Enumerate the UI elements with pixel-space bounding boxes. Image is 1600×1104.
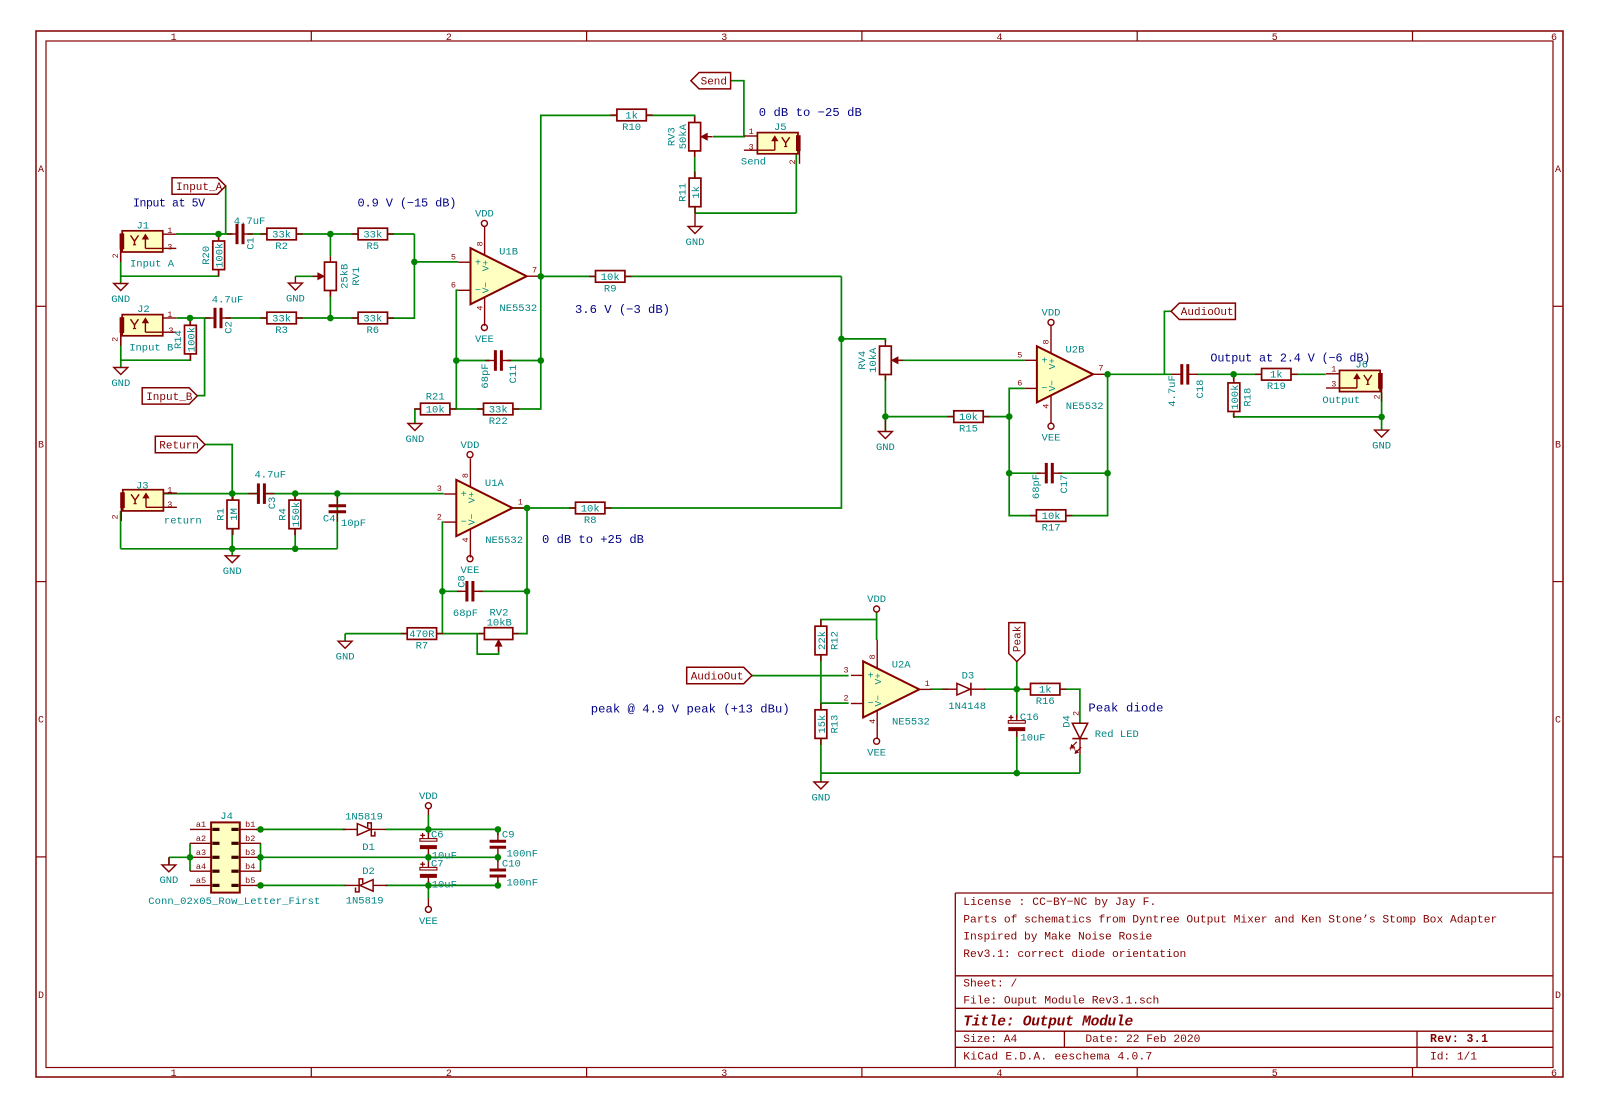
svg-text:Return: Return xyxy=(159,440,199,452)
svg-text:R13: R13 xyxy=(830,715,842,734)
svg-text:8: 8 xyxy=(868,654,878,659)
svg-text:GND: GND xyxy=(111,378,130,390)
svg-text:10k: 10k xyxy=(601,272,620,284)
svg-text:NE5532: NE5532 xyxy=(485,535,523,547)
svg-text:peak @ 4.9 V peak (+13 dBu): peak @ 4.9 V peak (+13 dBu) xyxy=(591,703,790,717)
svg-text:VEE: VEE xyxy=(461,565,480,577)
svg-text:150k: 150k xyxy=(291,502,303,527)
svg-text:GND: GND xyxy=(811,792,830,804)
svg-text:3: 3 xyxy=(721,1069,727,1080)
svg-text:5: 5 xyxy=(1017,351,1022,361)
svg-text:Rev: 3.1: Rev: 3.1 xyxy=(1430,1033,1488,1046)
svg-text:R3: R3 xyxy=(275,325,288,337)
svg-text:VDD: VDD xyxy=(475,209,494,221)
svg-text:1: 1 xyxy=(167,310,172,320)
svg-text:VDD: VDD xyxy=(1042,308,1061,320)
svg-text:5: 5 xyxy=(451,252,456,262)
svg-text:V+: V+ xyxy=(873,673,884,685)
svg-text:2: 2 xyxy=(843,694,848,704)
svg-text:3: 3 xyxy=(167,242,172,252)
svg-text:8: 8 xyxy=(475,241,485,246)
svg-text:Send: Send xyxy=(741,157,766,169)
svg-text:C16: C16 xyxy=(1020,712,1039,724)
svg-text:R2: R2 xyxy=(275,241,288,253)
svg-text:KiCad E.D.A. eeschema 4.0.7: KiCad E.D.A. eeschema 4.0.7 xyxy=(963,1052,1152,1064)
svg-text:VEE: VEE xyxy=(867,748,886,760)
svg-text:1: 1 xyxy=(518,497,523,507)
svg-text:U2B: U2B xyxy=(1066,344,1085,356)
svg-text:33k: 33k xyxy=(272,229,291,241)
svg-text:1k: 1k xyxy=(691,186,703,199)
svg-text:R5: R5 xyxy=(366,241,379,253)
svg-text:7: 7 xyxy=(1098,364,1103,374)
svg-text:Input_B: Input_B xyxy=(146,392,193,404)
svg-text:C: C xyxy=(1555,716,1561,727)
svg-text:2: 2 xyxy=(446,1069,452,1080)
svg-text:8: 8 xyxy=(461,473,471,478)
svg-text:1: 1 xyxy=(171,33,177,44)
svg-text:D1: D1 xyxy=(362,842,375,854)
svg-text:3.6 V (−3 dB): 3.6 V (−3 dB) xyxy=(575,303,670,317)
svg-text:0 dB to −25 dB: 0 dB to −25 dB xyxy=(759,106,862,120)
svg-text:0 dB to +25 dB: 0 dB to +25 dB xyxy=(542,533,644,547)
svg-text:1k: 1k xyxy=(1270,370,1283,382)
svg-text:1: 1 xyxy=(171,1069,177,1080)
svg-text:25kB: 25kB xyxy=(340,264,352,289)
svg-text:R22: R22 xyxy=(489,416,508,428)
svg-text:100k: 100k xyxy=(1230,385,1242,410)
svg-text:R9: R9 xyxy=(604,283,617,295)
svg-text:VDD: VDD xyxy=(461,440,480,452)
svg-text:10kA: 10kA xyxy=(868,347,880,373)
svg-text:Output: Output xyxy=(1322,395,1360,407)
svg-text:10k: 10k xyxy=(1042,511,1061,523)
svg-text:Parts of schematics from Dyntr: Parts of schematics from Dyntree Output … xyxy=(963,914,1497,926)
svg-text:10kB: 10kB xyxy=(487,617,512,629)
svg-text:a4: a4 xyxy=(196,862,206,872)
svg-text:GND: GND xyxy=(686,237,705,249)
svg-text:b5: b5 xyxy=(245,876,255,886)
svg-text:R1: R1 xyxy=(215,508,227,521)
svg-text:Sheet: /: Sheet: / xyxy=(963,979,1017,991)
svg-text:Input_A: Input_A xyxy=(176,182,223,194)
svg-text:2: 2 xyxy=(110,514,120,519)
svg-text:33k: 33k xyxy=(489,404,508,416)
svg-text:68pF: 68pF xyxy=(1031,474,1043,499)
svg-text:33k: 33k xyxy=(363,229,382,241)
svg-text:GND: GND xyxy=(111,294,130,306)
svg-text:8: 8 xyxy=(1042,339,1052,344)
svg-text:100k: 100k xyxy=(215,243,227,268)
svg-text:4: 4 xyxy=(475,306,485,311)
svg-text:R20: R20 xyxy=(201,246,213,265)
svg-text:4: 4 xyxy=(996,33,1002,44)
svg-text:U1A: U1A xyxy=(485,478,505,490)
svg-text:4: 4 xyxy=(868,719,878,724)
svg-text:1N5819: 1N5819 xyxy=(345,812,383,824)
svg-text:1: 1 xyxy=(167,485,172,495)
svg-text:C10: C10 xyxy=(502,858,521,870)
svg-text:J4: J4 xyxy=(220,811,233,823)
svg-text:GND: GND xyxy=(405,434,424,446)
svg-text:2: 2 xyxy=(1373,394,1383,399)
svg-text:68pF: 68pF xyxy=(453,608,478,620)
svg-text:4: 4 xyxy=(1042,404,1052,409)
svg-text:AudioOut: AudioOut xyxy=(691,671,744,683)
svg-text:Output at 2.4 V (−6 dB): Output at 2.4 V (−6 dB) xyxy=(1210,352,1370,366)
svg-text:GND: GND xyxy=(223,566,242,578)
svg-text:B: B xyxy=(38,440,44,451)
svg-text:R10: R10 xyxy=(622,122,641,134)
svg-text:C18: C18 xyxy=(1195,380,1207,399)
svg-text:R14: R14 xyxy=(173,330,185,349)
svg-text:2: 2 xyxy=(437,512,442,522)
svg-text:NE5532: NE5532 xyxy=(892,716,930,728)
svg-text:1k: 1k xyxy=(625,110,638,122)
svg-text:1: 1 xyxy=(749,127,754,137)
svg-text:3: 3 xyxy=(167,500,172,510)
svg-text:4.7uF: 4.7uF xyxy=(255,470,287,482)
svg-text:4.7uF: 4.7uF xyxy=(212,294,244,306)
svg-text:R18: R18 xyxy=(1243,388,1255,407)
svg-text:33k: 33k xyxy=(363,313,382,325)
svg-text:1: 1 xyxy=(167,226,172,236)
svg-text:R21: R21 xyxy=(426,392,445,404)
svg-text:100k: 100k xyxy=(186,327,198,352)
svg-text:C6: C6 xyxy=(431,829,444,841)
svg-text:U1B: U1B xyxy=(499,246,518,258)
svg-text:4.7uF: 4.7uF xyxy=(234,216,266,228)
svg-text:10uF: 10uF xyxy=(1020,733,1045,745)
svg-text:b3: b3 xyxy=(245,848,255,858)
svg-text:D2: D2 xyxy=(362,866,375,878)
svg-text:V+: V+ xyxy=(466,491,477,503)
svg-text:3: 3 xyxy=(721,33,727,44)
svg-text:b2: b2 xyxy=(245,834,255,844)
svg-text:NE5532: NE5532 xyxy=(1066,401,1104,413)
svg-text:RV3: RV3 xyxy=(667,127,679,146)
svg-text:J1: J1 xyxy=(137,220,150,232)
svg-text:VEE: VEE xyxy=(419,916,438,928)
svg-text:D: D xyxy=(1555,991,1561,1002)
svg-text:C4: C4 xyxy=(323,513,336,525)
svg-text:C11: C11 xyxy=(508,365,520,384)
svg-text:7: 7 xyxy=(532,266,537,276)
svg-text:V−: V− xyxy=(1047,380,1058,392)
svg-text:2: 2 xyxy=(111,253,121,258)
svg-text:3: 3 xyxy=(1331,379,1336,389)
svg-text:2: 2 xyxy=(1071,711,1081,716)
svg-text:J5: J5 xyxy=(774,122,787,134)
svg-text:a5: a5 xyxy=(196,876,206,886)
svg-text:Input at 5V: Input at 5V xyxy=(133,197,205,210)
svg-text:Date: 22 Feb 2020: Date: 22 Feb 2020 xyxy=(1085,1034,1200,1046)
svg-text:10uF: 10uF xyxy=(432,879,457,891)
svg-text:4.7uF: 4.7uF xyxy=(1167,375,1179,407)
svg-text:V−: V− xyxy=(481,282,492,294)
svg-text:1: 1 xyxy=(1331,365,1336,375)
svg-text:b4: b4 xyxy=(245,862,255,872)
svg-text:5: 5 xyxy=(1272,33,1278,44)
svg-text:0.9 V (−15 dB): 0.9 V (−15 dB) xyxy=(358,196,457,210)
svg-text:2: 2 xyxy=(788,159,798,164)
svg-text:1M: 1M xyxy=(229,508,241,521)
svg-text:V+: V+ xyxy=(481,260,492,272)
svg-text:10k: 10k xyxy=(959,412,978,424)
svg-text:1k: 1k xyxy=(1039,685,1052,697)
svg-text:RV1: RV1 xyxy=(351,267,363,286)
svg-text:RV4: RV4 xyxy=(857,351,869,370)
svg-text:3: 3 xyxy=(843,666,848,676)
svg-text:a2: a2 xyxy=(196,834,206,844)
svg-text:Peak diode: Peak diode xyxy=(1088,702,1163,716)
svg-text:C9: C9 xyxy=(502,829,515,841)
svg-text:GND: GND xyxy=(336,652,355,664)
svg-text:Id: 1/1: Id: 1/1 xyxy=(1430,1052,1477,1064)
svg-text:1N4148: 1N4148 xyxy=(948,701,986,713)
svg-text:License : CC−BY−NC by Jay F.: License : CC−BY−NC by Jay F. xyxy=(963,897,1156,909)
svg-text:3: 3 xyxy=(437,484,442,494)
svg-text:R17: R17 xyxy=(1042,523,1061,535)
svg-text:GND: GND xyxy=(876,442,895,454)
svg-text:3: 3 xyxy=(749,143,754,153)
svg-text:470R: 470R xyxy=(409,629,435,641)
svg-text:VDD: VDD xyxy=(867,594,886,606)
svg-text:D: D xyxy=(38,991,44,1002)
svg-text:V+: V+ xyxy=(1047,358,1058,370)
svg-text:6: 6 xyxy=(1551,33,1557,44)
svg-text:C17: C17 xyxy=(1059,475,1071,494)
svg-text:C: C xyxy=(38,716,44,727)
svg-text:10pF: 10pF xyxy=(341,518,366,530)
svg-text:2: 2 xyxy=(111,337,121,342)
svg-text:2: 2 xyxy=(446,33,452,44)
svg-text:GND: GND xyxy=(1372,440,1391,452)
svg-text:C1: C1 xyxy=(245,237,257,250)
svg-text:C2: C2 xyxy=(223,321,235,334)
svg-text:C3: C3 xyxy=(267,497,279,510)
svg-text:100nF: 100nF xyxy=(507,877,539,889)
svg-text:33k: 33k xyxy=(272,313,291,325)
svg-text:4: 4 xyxy=(996,1069,1002,1080)
svg-text:22k: 22k xyxy=(817,631,829,650)
svg-text:a3: a3 xyxy=(196,848,206,858)
svg-text:Input B: Input B xyxy=(129,343,173,355)
svg-text:Peak: Peak xyxy=(1013,625,1025,652)
svg-text:GND: GND xyxy=(159,875,178,887)
svg-text:U2A: U2A xyxy=(892,660,912,672)
svg-text:10k: 10k xyxy=(426,404,445,416)
svg-text:1: 1 xyxy=(1068,746,1078,751)
svg-text:6: 6 xyxy=(451,281,456,291)
svg-text:D4: D4 xyxy=(1061,715,1073,728)
svg-text:NE5532: NE5532 xyxy=(499,303,537,315)
svg-text:return: return xyxy=(164,516,202,528)
svg-text:R15: R15 xyxy=(959,424,978,436)
svg-text:R16: R16 xyxy=(1036,696,1055,708)
svg-text:R4: R4 xyxy=(277,508,289,521)
svg-text:J2: J2 xyxy=(137,304,150,316)
svg-text:Conn_02x05_Row_Letter_First: Conn_02x05_Row_Letter_First xyxy=(148,896,320,908)
svg-text:15k: 15k xyxy=(817,715,829,734)
svg-text:GND: GND xyxy=(286,293,305,305)
svg-text:File: Ouput Module Rev3.1.sch: File: Ouput Module Rev3.1.sch xyxy=(963,995,1159,1007)
svg-text:C7: C7 xyxy=(431,858,444,870)
svg-text:B: B xyxy=(1555,440,1561,451)
svg-text:Inspired by Make Noise Rosie: Inspired by Make Noise Rosie xyxy=(963,932,1152,944)
svg-text:R6: R6 xyxy=(366,325,379,337)
svg-text:4: 4 xyxy=(461,537,471,542)
svg-text:R7: R7 xyxy=(416,641,429,653)
svg-text:68pF: 68pF xyxy=(480,363,492,388)
svg-text:J3: J3 xyxy=(136,480,149,492)
svg-text:6: 6 xyxy=(1017,379,1022,389)
svg-text:Size: A4: Size: A4 xyxy=(963,1034,1017,1046)
svg-text:a1: a1 xyxy=(196,820,206,830)
svg-text:1N5819: 1N5819 xyxy=(346,896,384,908)
svg-text:V−: V− xyxy=(466,513,477,525)
svg-text:A: A xyxy=(1555,165,1561,176)
svg-text:V−: V− xyxy=(873,695,884,707)
svg-text:50kA: 50kA xyxy=(678,123,690,149)
svg-text:b1: b1 xyxy=(245,820,255,830)
svg-text:6: 6 xyxy=(1551,1069,1557,1080)
svg-text:VEE: VEE xyxy=(1042,433,1061,445)
svg-text:VEE: VEE xyxy=(475,334,494,346)
svg-text:Red LED: Red LED xyxy=(1095,729,1139,741)
svg-text:R12: R12 xyxy=(830,631,842,650)
svg-text:1: 1 xyxy=(925,679,930,689)
svg-text:Rev3.1: correct diode orientat: Rev3.1: correct diode orientation xyxy=(963,949,1186,961)
svg-text:5: 5 xyxy=(1272,1069,1278,1080)
svg-text:R8: R8 xyxy=(584,515,597,527)
svg-text:AudioOut: AudioOut xyxy=(1181,307,1234,319)
svg-text:D3: D3 xyxy=(962,671,975,683)
svg-text:Input A: Input A xyxy=(130,259,175,271)
svg-text:R11: R11 xyxy=(678,183,690,202)
svg-text:Title: Output Module: Title: Output Module xyxy=(963,1014,1133,1030)
svg-text:VDD: VDD xyxy=(419,791,438,803)
svg-text:R19: R19 xyxy=(1267,381,1286,393)
svg-text:10k: 10k xyxy=(581,503,600,515)
svg-text:A: A xyxy=(38,165,44,176)
svg-text:Send: Send xyxy=(701,77,727,89)
